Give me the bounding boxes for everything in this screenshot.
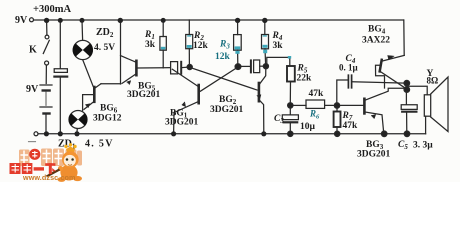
wire cross to BG2 base [190, 67, 257, 90]
svg-text:BG4: BG4 [368, 25, 386, 36]
transistor BG1 [197, 85, 200, 103]
node R6-R7-C4 [334, 103, 339, 108]
wire BG6 collector link [101, 83, 121, 85]
node 9V+ terminal [30, 18, 34, 22]
transistor BG6 emitter arrow [86, 104, 90, 108]
node C1-R2 [187, 64, 192, 69]
resistor R5 [287, 66, 295, 82]
svg-text:9V: 9V [26, 84, 39, 95]
transistor BG5 [135, 61, 138, 75]
transistor BG2 [258, 83, 261, 101]
node C3 ground [288, 131, 293, 136]
transistor BG6 [93, 87, 96, 102]
node output A [404, 80, 410, 86]
wire bottom rail [38, 133, 426, 135]
speaker Y [424, 95, 430, 116]
zener ZD1 fill [69, 113, 88, 126]
svg-text:10µ: 10µ [300, 122, 316, 132]
watermark pale glyphs [19, 149, 82, 167]
svg-text:R6: R6 [309, 109, 320, 121]
wire R1 node to C1 [163, 67, 170, 69]
transistor BG3 emitter arrow [371, 115, 376, 119]
svg-text:12k: 12k [215, 52, 231, 62]
svg-text:3k: 3k [273, 41, 284, 51]
resistor R3 [237, 20, 239, 35]
node 9V- terminal [34, 132, 38, 136]
capacitor (filter) [54, 69, 67, 73]
svg-text:ZD2: ZD2 [96, 27, 114, 39]
svg-text:4. 5V: 4. 5V [94, 43, 115, 53]
node R5-C3 [288, 103, 293, 108]
transistor BG4 [380, 60, 382, 72]
node R7 ground [335, 131, 340, 136]
watermark mascot [47, 143, 83, 182]
svg-text:3k: 3k [145, 40, 156, 50]
svg-text:C5: C5 [398, 140, 408, 151]
transistor BG4 emitter arrow [388, 56, 394, 60]
svg-text:www.dzsc.com: www.dzsc.com [22, 173, 75, 182]
svg-text:9V: 9V [15, 15, 28, 26]
svg-text:8Ω: 8Ω [427, 76, 439, 86]
svg-text:3DG12: 3DG12 [93, 114, 122, 124]
svg-text:4. 5V: 4. 5V [85, 139, 114, 150]
wire BG5 collector to rail [120, 20, 122, 84]
node BG3 emitter ground [381, 131, 387, 137]
wire R6 row [293, 104, 306, 106]
capacitor C2 [250, 60, 252, 72]
svg-text:3DG201: 3DG201 [357, 150, 391, 160]
node C2-R4 [263, 64, 268, 69]
node C5 ground [404, 131, 410, 137]
svg-text:12k: 12k [193, 41, 209, 51]
wire BG4 base zigzag [376, 65, 385, 88]
zener ZD2 [73, 40, 92, 59]
node output B [404, 87, 410, 93]
watermark red text [10, 163, 57, 174]
wire cross to BG1 base [200, 67, 238, 91]
transistor BG5 emitter arrow [127, 81, 131, 85]
capacitor C1 [171, 62, 178, 74]
svg-text:3. 3µ: 3. 3µ [413, 141, 433, 151]
switch K [46, 21, 48, 35]
node R3-C2 [235, 64, 241, 70]
wire speaker top [407, 86, 427, 95]
battery 9V [40, 84, 52, 86]
svg-text:47k: 47k [343, 121, 359, 131]
watermark red circle logo [29, 149, 40, 160]
svg-text:0. 1µ: 0. 1µ [339, 63, 359, 73]
watermark [10, 143, 83, 182]
wire ZD2 branch [81, 20, 84, 40]
wire cap branch [59, 20, 61, 68]
svg-text:3DG201: 3DG201 [165, 118, 199, 128]
zener ZD2 fill [73, 43, 93, 57]
transistor BG1 emitter arrow [182, 102, 186, 107]
wire top rail [34, 19, 404, 21]
wire top-right drop [403, 20, 405, 55]
resistor cyan marks [161, 35, 291, 58]
svg-text:3DG201: 3DG201 [210, 105, 244, 115]
svg-text:3DG201: 3DG201 [127, 90, 161, 100]
wire node to C2 [241, 65, 251, 67]
svg-text:—: — [27, 137, 37, 146]
svg-text:R3: R3 [219, 40, 230, 51]
resistor R2 [188, 20, 190, 35]
capacitor C5 [405, 91, 407, 104]
node rail dots [44, 18, 268, 137]
capacitor C3 [289, 107, 291, 115]
label +300mA [15, 4, 438, 160]
transistor BG2 emitter arrow [257, 95, 261, 99]
resistor R1 [162, 50, 164, 67]
svg-text:47k: 47k [309, 89, 325, 99]
svg-text:+300mA: +300mA [33, 4, 71, 15]
capacitor C4 [337, 80, 348, 103]
svg-text:K: K [29, 45, 37, 56]
wire R5 feed [267, 57, 290, 65]
resistor R6 [306, 100, 325, 108]
resistor R4 [264, 20, 266, 35]
svg-text:22k: 22k [297, 74, 313, 84]
resistor R7 [336, 107, 338, 112]
transistor BG3 [363, 99, 366, 114]
wire BG6 base [83, 95, 93, 111]
svg-text:3AX22: 3AX22 [362, 36, 390, 46]
zener ZD1 [69, 111, 87, 129]
